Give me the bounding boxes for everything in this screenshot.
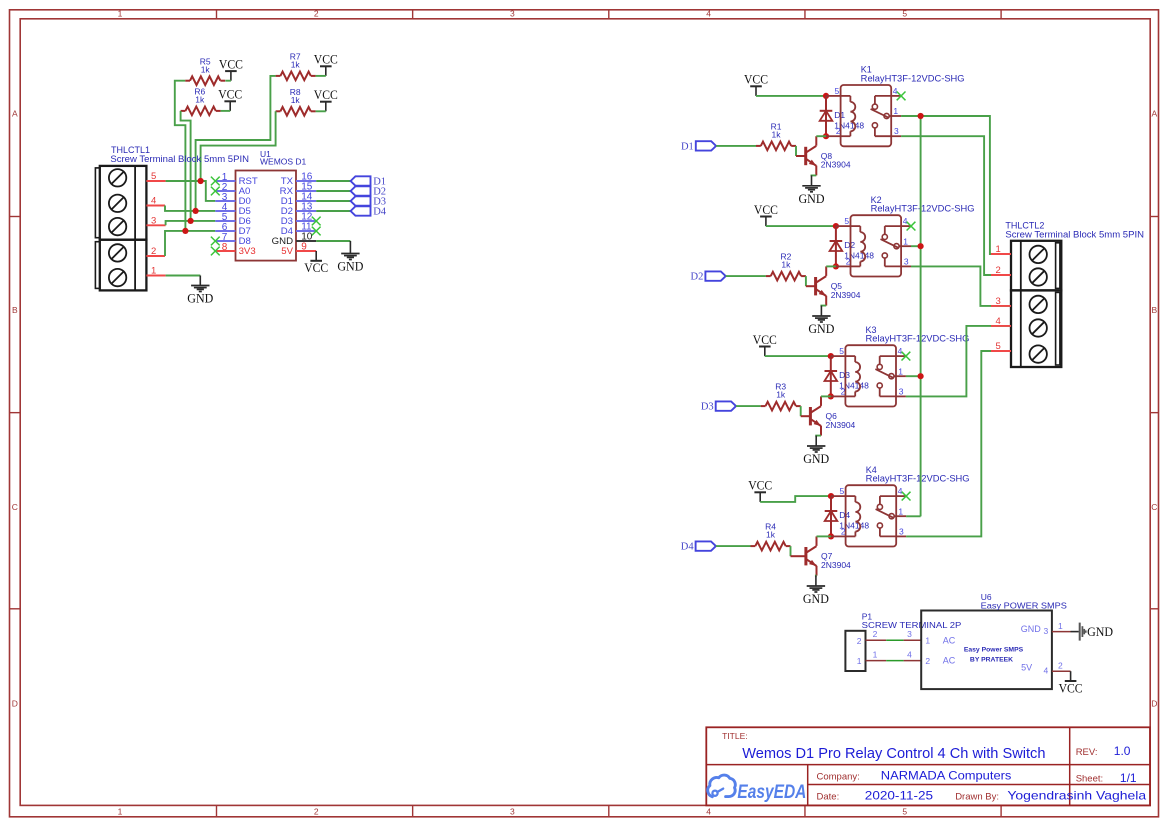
U1 pin 14 D1 <box>281 192 316 208</box>
power VCC (K2) <box>754 202 778 226</box>
svg-text:4: 4 <box>898 486 903 496</box>
svg-text:4: 4 <box>907 650 912 660</box>
svg-text:Screw Terminal Block 5mm 5PIN: Screw Terminal Block 5mm 5PIN <box>1005 230 1144 240</box>
svg-text:4: 4 <box>1044 666 1049 676</box>
U1 pin 11 D4 <box>281 222 316 238</box>
svg-text:9: 9 <box>301 242 307 253</box>
svg-text:1: 1 <box>118 806 123 816</box>
svg-text:1.0: 1.0 <box>1114 744 1131 758</box>
transistor Q5 2N3904 <box>816 266 861 305</box>
U1 pin 5 D6 <box>215 212 251 227</box>
svg-text:RelayHT3F-12VDC-SHG: RelayHT3F-12VDC-SHG <box>861 74 965 84</box>
svg-text:Easy POWER SMPS: Easy POWER SMPS <box>981 600 1068 610</box>
svg-text:VCC: VCC <box>748 478 772 493</box>
power VCC (R6) <box>218 87 242 111</box>
U1 pin 7 D8 <box>215 232 251 247</box>
wire K3 pin1 <box>906 375 921 377</box>
wire <box>316 110 326 112</box>
svg-text:TITLE:: TITLE: <box>722 731 748 741</box>
date row <box>817 789 1147 803</box>
wire <box>196 76 276 211</box>
junction <box>823 93 829 99</box>
wire <box>316 240 350 242</box>
svg-text:RelayHT3F-12VDC-SHG: RelayHT3F-12VDC-SHG <box>866 474 970 484</box>
wire <box>316 210 350 212</box>
junction <box>828 533 834 539</box>
svg-text:GND: GND <box>799 191 825 206</box>
svg-text:2: 2 <box>846 256 851 266</box>
no-connect X (relay pin 4) <box>907 222 916 231</box>
no-connect X <box>312 217 321 226</box>
wire <box>815 576 818 577</box>
junction <box>188 218 194 224</box>
svg-text:1: 1 <box>903 236 908 246</box>
svg-text:1: 1 <box>893 106 898 116</box>
wire <box>736 405 761 407</box>
ground (Q7) <box>803 576 829 606</box>
svg-text:D4: D4 <box>373 207 387 218</box>
THLCTL2 pin 4 <box>991 316 1011 327</box>
svg-text:Date:: Date: <box>817 791 840 802</box>
svg-text:2N3904: 2N3904 <box>821 560 851 570</box>
U1 pin 10 GND <box>272 232 317 248</box>
svg-text:2: 2 <box>1058 661 1063 671</box>
svg-text:1: 1 <box>898 506 903 516</box>
connector P1 SCREW TERMINAL 2P <box>845 631 865 671</box>
wire <box>766 225 836 227</box>
resistor R6 <box>181 86 221 115</box>
svg-text:2: 2 <box>996 265 1001 276</box>
power VCC (U1 pin9) <box>304 251 328 275</box>
svg-text:5V: 5V <box>1021 663 1032 673</box>
THLCTL1 pin 2 <box>146 246 165 257</box>
svg-text:VCC: VCC <box>753 332 777 347</box>
svg-text:1k: 1k <box>766 530 776 540</box>
wire <box>812 175 817 176</box>
svg-text:5: 5 <box>902 9 907 19</box>
svg-text:3: 3 <box>899 386 904 396</box>
svg-text:1: 1 <box>898 366 903 376</box>
junction <box>918 373 924 379</box>
net flag D4 (U1 side) <box>351 206 387 217</box>
wire K4 pin1 <box>906 515 921 517</box>
svg-text:VCC: VCC <box>1059 680 1083 695</box>
diode D2 1N4148 <box>830 226 875 266</box>
svg-text:5: 5 <box>839 346 844 356</box>
svg-text:2: 2 <box>314 9 319 19</box>
title text <box>722 731 1045 762</box>
U1 pin 6 D7 <box>215 222 251 237</box>
no-connect X <box>211 247 220 256</box>
svg-text:1k: 1k <box>772 130 782 140</box>
svg-text:3: 3 <box>894 126 899 136</box>
svg-text:4: 4 <box>903 216 908 226</box>
svg-text:B: B <box>1151 305 1157 315</box>
title block <box>706 727 1150 805</box>
wire <box>800 406 802 416</box>
U1 pin 15 RX <box>280 182 317 198</box>
power VCC (K4) <box>748 478 772 502</box>
transistor Q8 2N3904 <box>806 136 851 175</box>
relay K4 RelayHT3F-12VDC-SHG <box>831 465 970 547</box>
THLCTL2 screw circle 2 <box>1030 268 1047 285</box>
junction <box>918 113 924 119</box>
wire <box>175 81 186 231</box>
svg-text:C: C <box>12 502 18 512</box>
svg-text:VCC: VCC <box>314 52 338 67</box>
wire K1 pin3 - T2 <box>901 136 1011 275</box>
wire <box>316 190 350 192</box>
svg-text:5: 5 <box>996 341 1001 352</box>
resistor R5 <box>185 56 225 85</box>
U1 pin 12 D3 <box>281 212 316 228</box>
svg-text:Drawn By:: Drawn By: <box>955 791 999 802</box>
THLCTL1 screw circle 5 <box>109 269 126 286</box>
svg-text:2: 2 <box>836 126 841 136</box>
wire net T3-D6 <box>166 221 216 225</box>
wire <box>316 180 350 182</box>
U1 pin 13 D2 <box>281 202 316 218</box>
svg-text:1: 1 <box>1058 621 1063 631</box>
net flag D2 (U1 side) <box>351 186 386 197</box>
wire <box>716 545 751 547</box>
IC U6 Easy POWER SMPS <box>921 611 1052 690</box>
svg-text:GND: GND <box>803 591 829 606</box>
THLCTL2 screw circle 5 <box>1030 345 1047 362</box>
THLCTL1 pin 5 <box>146 171 165 182</box>
resistor R4 1k <box>751 522 791 551</box>
svg-text:1k: 1k <box>776 390 786 400</box>
svg-text:GND: GND <box>803 451 829 466</box>
wire <box>316 75 326 77</box>
no-connect X (relay pin 4) <box>902 352 911 361</box>
P1 pin 2 / U6 pin 3 wire <box>866 629 922 640</box>
svg-text:2N3904: 2N3904 <box>826 420 856 430</box>
resistor R2 1k <box>766 252 806 281</box>
sheet <box>1076 771 1137 785</box>
U6 pin 1 GND wire <box>1052 621 1071 632</box>
junction <box>828 393 834 399</box>
wire <box>805 276 807 286</box>
no-connect X <box>211 237 220 246</box>
svg-text:2: 2 <box>925 656 930 666</box>
THLCTL2 pin 1 <box>991 244 1011 255</box>
svg-text:WEMOS D1: WEMOS D1 <box>260 156 307 166</box>
svg-text:Company:: Company: <box>817 771 860 782</box>
svg-text:3: 3 <box>907 629 912 639</box>
svg-text:4: 4 <box>893 86 898 96</box>
junction <box>828 493 834 499</box>
U1 pin 1 RST <box>215 172 258 187</box>
svg-text:D3: D3 <box>701 402 714 413</box>
THLCTL2 screw circle 4 <box>1030 319 1047 336</box>
net flag D2 (input) <box>691 271 726 282</box>
wire <box>181 111 191 221</box>
svg-text:3: 3 <box>510 806 515 816</box>
svg-text:3V3: 3V3 <box>239 246 256 257</box>
svg-text:2: 2 <box>151 246 156 257</box>
svg-text:A: A <box>1151 108 1157 118</box>
resistor R8 <box>276 87 316 116</box>
junction <box>182 228 188 234</box>
svg-text:D4: D4 <box>681 542 695 553</box>
junction <box>828 353 834 359</box>
svg-text:1: 1 <box>151 266 156 277</box>
THLCTL1 screw circle 1 <box>109 169 126 186</box>
svg-text:B: B <box>12 305 18 315</box>
svg-text:5: 5 <box>839 486 844 496</box>
resistor R3 1k <box>761 382 801 411</box>
ground (THLCTL1 pin1) <box>187 276 213 306</box>
svg-text:4: 4 <box>706 9 711 19</box>
svg-text:NARMADA Computers: NARMADA Computers <box>881 769 1012 783</box>
THLCTL1 pin 4 <box>146 196 165 207</box>
junction <box>833 263 839 269</box>
svg-text:1k: 1k <box>201 64 211 74</box>
svg-text:BY PRATEEK: BY PRATEEK <box>970 657 1013 664</box>
relay K3 RelayHT3F-12VDC-SHG <box>831 325 970 407</box>
wire <box>756 95 826 97</box>
svg-text:1k: 1k <box>781 260 791 270</box>
net flag D1 (U1 side) <box>351 176 386 187</box>
no-connect X <box>312 227 321 236</box>
relay K1 RelayHT3F-12VDC-SHG <box>826 65 965 147</box>
svg-text:4: 4 <box>151 196 156 207</box>
svg-text:2N3904: 2N3904 <box>821 160 851 170</box>
net flag D4 (input) <box>681 541 716 552</box>
svg-text:D1: D1 <box>681 142 694 153</box>
svg-text:VCC: VCC <box>754 202 778 217</box>
svg-text:GND: GND <box>187 291 213 306</box>
wire K2 pin1 <box>911 245 921 247</box>
resistor R7 <box>276 52 316 81</box>
wire relay commons bus <box>920 116 922 516</box>
IC U1 WEMOS D1 <box>236 171 297 261</box>
power VCC (R5) <box>219 56 243 80</box>
U6 pin 2 5V wire <box>1052 661 1071 672</box>
svg-text:5: 5 <box>902 806 907 816</box>
power VCC (K3) <box>753 332 777 356</box>
svg-text:D: D <box>12 699 18 709</box>
THLCTL1 screw circle 2 <box>109 195 126 212</box>
THLCTL2 screw circle 3 <box>1030 296 1047 313</box>
svg-text:3: 3 <box>899 526 904 536</box>
svg-text:GND: GND <box>1021 624 1042 634</box>
wire <box>901 116 1011 254</box>
svg-text:1: 1 <box>996 244 1001 255</box>
svg-text:1: 1 <box>857 656 862 666</box>
svg-text:RelayHT3F-12VDC-SHG: RelayHT3F-12VDC-SHG <box>866 334 970 344</box>
power VCC (R8) <box>314 87 338 111</box>
svg-text:1/1: 1/1 <box>1120 771 1137 785</box>
THLCTL2 pin 5 <box>991 341 1011 352</box>
EasyEDA logo <box>708 775 807 803</box>
svg-text:3: 3 <box>151 215 156 226</box>
wire <box>716 145 756 147</box>
wire <box>726 275 766 277</box>
svg-text:D: D <box>1151 699 1157 709</box>
junction <box>198 178 204 184</box>
svg-text:2N3904: 2N3904 <box>831 290 861 300</box>
no-connect X (relay pin 4) <box>897 92 906 101</box>
svg-text:4: 4 <box>706 806 711 816</box>
wire <box>765 355 831 357</box>
svg-text:2: 2 <box>841 526 846 536</box>
wire <box>795 146 797 156</box>
svg-text:3: 3 <box>1044 626 1049 636</box>
svg-text:4: 4 <box>898 346 903 356</box>
svg-text:RelayHT3F-12VDC-SHG: RelayHT3F-12VDC-SHG <box>871 204 975 214</box>
svg-text:EasyEDA: EasyEDA <box>737 782 806 803</box>
svg-text:5: 5 <box>834 86 839 96</box>
wire <box>821 306 826 307</box>
svg-text:GND: GND <box>808 321 834 336</box>
U1 pin 16 TX <box>281 172 316 188</box>
svg-text:Wemos D1 Pro Relay Control 4 C: Wemos D1 Pro Relay Control 4 Ch with Swi… <box>742 746 1045 762</box>
wire K2 pin3 - T3 <box>911 266 1011 306</box>
svg-text:Yogendrasinh Vaghela: Yogendrasinh Vaghela <box>1007 789 1146 803</box>
diode D1 1N4148 <box>820 96 865 136</box>
svg-text:A: A <box>12 108 18 118</box>
svg-text:3: 3 <box>996 296 1001 307</box>
svg-text:GND: GND <box>1087 624 1113 639</box>
ground (Q5) <box>808 306 834 336</box>
resistor R1 1k <box>756 122 796 151</box>
svg-text:VCC: VCC <box>744 72 768 87</box>
wire <box>816 135 826 137</box>
svg-text:5: 5 <box>151 171 156 182</box>
wire <box>316 200 350 202</box>
ground (Q6) <box>803 436 829 466</box>
diode D3 1N4148 <box>825 356 870 396</box>
svg-text:3: 3 <box>510 9 515 19</box>
svg-text:VCC: VCC <box>304 260 328 275</box>
diode D4 1N4148 <box>825 496 870 536</box>
wire K4 pin3 - T5 <box>906 351 1011 536</box>
svg-text:VCC: VCC <box>219 56 243 71</box>
THLCTL2 screw circle 1 <box>1030 246 1047 263</box>
ground (U6 pin1) <box>1071 623 1114 641</box>
wire net T5-D0 <box>166 181 216 201</box>
wire <box>760 496 831 502</box>
THLCTL2 pin 3 <box>991 296 1011 307</box>
power VCC (K1) <box>744 72 768 96</box>
ground (U1 pin10) <box>337 241 363 274</box>
svg-text:1: 1 <box>118 9 123 19</box>
U1 pin 4 D5 <box>215 202 251 217</box>
wire <box>817 535 832 537</box>
THLCTL1 pin 3 <box>146 215 165 226</box>
svg-text:1k: 1k <box>195 94 205 104</box>
power VCC (U6 pin2) <box>1059 671 1083 695</box>
net flag D1 (input) <box>681 141 716 152</box>
svg-text:Sheet:: Sheet: <box>1076 773 1103 784</box>
junction <box>918 243 924 249</box>
svg-text:5: 5 <box>844 216 849 226</box>
svg-text:C: C <box>1151 502 1157 512</box>
svg-text:4: 4 <box>996 316 1001 327</box>
THLCTL1 pin 1 <box>146 266 165 277</box>
svg-text:1k: 1k <box>291 95 301 105</box>
svg-text:2: 2 <box>873 629 878 639</box>
junction <box>833 223 839 229</box>
transistor Q7 2N3904 <box>806 536 851 575</box>
svg-text:VCC: VCC <box>314 87 338 102</box>
svg-text:Screw Terminal Block 5mm 5PIN: Screw Terminal Block 5mm 5PIN <box>110 154 249 164</box>
svg-text:VCC: VCC <box>218 87 242 102</box>
wire <box>790 546 792 556</box>
power VCC (R7) <box>314 52 338 76</box>
net flag D3 (U1 side) <box>351 196 386 207</box>
wire <box>816 436 821 437</box>
svg-text:1: 1 <box>873 650 878 660</box>
wire K3 pin3 - T4 <box>906 326 1011 397</box>
svg-text:1: 1 <box>925 636 930 646</box>
wire net T2-D7 <box>165 231 215 256</box>
connector THLCTL2 <box>1011 241 1061 367</box>
svg-text:REV:: REV: <box>1076 747 1098 758</box>
no-connect X <box>211 187 220 196</box>
svg-text:Easy Power SMPS: Easy Power SMPS <box>964 647 1024 654</box>
no-connect X (relay pin 4) <box>902 492 911 501</box>
wire <box>225 80 231 82</box>
svg-text:GND: GND <box>337 259 363 274</box>
svg-text:3: 3 <box>904 256 909 266</box>
svg-text:D2: D2 <box>691 272 704 283</box>
P1 pin 1 / U6 pin 4 wire <box>866 650 922 661</box>
relay K2 RelayHT3F-12VDC-SHG <box>836 195 975 277</box>
svg-text:2: 2 <box>314 806 319 816</box>
U1 pin 8 3V3 <box>215 242 255 257</box>
THLCTL1 screw circle 4 <box>109 244 126 261</box>
THLCTL1 screw circle 3 <box>109 218 126 235</box>
connector THLCTL1 <box>95 166 146 291</box>
U1 pin 2 A0 <box>215 182 250 197</box>
svg-text:AC: AC <box>943 635 956 645</box>
svg-text:5V: 5V <box>281 246 293 257</box>
net flag D3 (input) <box>701 401 736 412</box>
junction <box>193 208 199 214</box>
junction <box>823 133 829 139</box>
wire net T4-D5 <box>165 206 215 211</box>
THLCTL2 pin 2 <box>991 265 1011 276</box>
wire <box>221 110 231 112</box>
U1 pin 9 5V <box>281 242 316 258</box>
svg-text:1k: 1k <box>291 60 301 70</box>
transistor Q6 2N3904 <box>810 396 855 435</box>
wire <box>201 111 276 181</box>
svg-text:8: 8 <box>222 242 228 253</box>
no-connect X <box>211 177 220 186</box>
svg-text:2: 2 <box>857 636 862 646</box>
ground (Q8) <box>799 175 825 205</box>
wire <box>826 265 836 267</box>
wire net T1-GND <box>166 275 201 277</box>
U1 pin 3 D0 <box>215 192 251 207</box>
company row <box>817 769 1012 783</box>
wire <box>821 395 831 397</box>
svg-text:2020-11-25: 2020-11-25 <box>865 789 934 803</box>
REV <box>1076 744 1131 758</box>
svg-text:2: 2 <box>841 386 846 396</box>
svg-text:AC: AC <box>943 656 956 666</box>
